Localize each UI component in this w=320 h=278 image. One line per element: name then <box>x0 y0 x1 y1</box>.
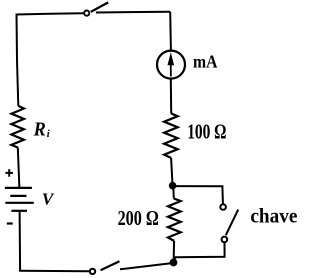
wire Ri to battery <box>18 148 20 189</box>
wire ammeter to R1 <box>170 79 172 113</box>
wire left rail upper <box>17 14 19 106</box>
svg-text:chave: chave <box>250 203 297 227</box>
label + polarity <box>5 169 13 177</box>
wire R1 to node A <box>171 158 172 183</box>
wire battery to bottom rail <box>19 211 22 271</box>
wire bottom rail left segment <box>19 270 89 273</box>
wire node A to chave branch (top) <box>173 186 223 203</box>
battery V plate 4 short (-) <box>11 210 27 212</box>
node A junction dot <box>169 182 177 190</box>
svg-text:mA: mA <box>193 52 218 72</box>
battery V plate 1 long (+) <box>5 187 32 189</box>
wire chave lower contact to node B <box>174 243 225 262</box>
switch S3 (bottom, open) circle <box>90 269 95 274</box>
resistor R2 200 ohm zigzag <box>168 199 181 241</box>
ammeter arrow shaft <box>170 63 172 77</box>
switch S3 blade <box>101 261 120 270</box>
wire node A to R2 <box>172 186 175 199</box>
wire right rail top (to ammeter) <box>169 12 172 50</box>
battery V plate 2 short <box>10 195 26 197</box>
label - polarity <box>7 222 13 224</box>
svg-text:V: V <box>42 190 55 209</box>
battery V plate 3 long <box>5 202 33 204</box>
wire top rail right segment <box>96 11 170 14</box>
ammeter U1 circle <box>157 51 185 79</box>
svg-text:200 Ω: 200 Ω <box>118 206 159 230</box>
ammeter arrow head <box>168 52 175 65</box>
wire top rail left segment <box>16 13 84 14</box>
svg-text:100 Ω: 100 Ω <box>187 120 226 144</box>
resistor Ri zigzag <box>11 106 24 148</box>
switch chave upper contact circle <box>220 204 226 210</box>
svg-text:R: R <box>33 118 46 140</box>
switch S1 blade <box>91 2 108 12</box>
switch chave lower contact circle <box>222 237 228 243</box>
resistor R1 100 ohm zigzag <box>164 114 178 158</box>
switch S1 (top, open) circle <box>84 11 89 16</box>
svg-text:i: i <box>47 129 50 140</box>
wire bottom rail right segment <box>120 263 173 269</box>
switch chave blade <box>226 210 238 236</box>
wire R2 to node B <box>173 241 176 263</box>
node B junction dot <box>170 259 178 267</box>
